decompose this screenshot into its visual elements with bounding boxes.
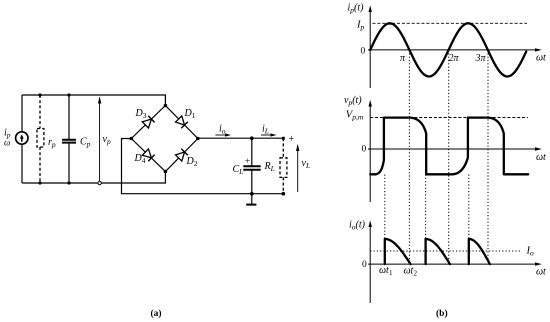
svg-text:0: 0 — [361, 47, 366, 57]
svg-text:0: 0 — [362, 260, 367, 270]
svg-text:(a): (a) — [151, 308, 162, 319]
svg-text:ip(t): ip(t) — [348, 3, 365, 15]
svg-text:ωt: ωt — [536, 152, 546, 163]
svg-text:0: 0 — [362, 145, 367, 155]
svg-text:2π: 2π — [449, 53, 460, 64]
svg-text:ωt: ωt — [536, 267, 546, 278]
svg-text:(b): (b) — [436, 308, 448, 319]
svg-text:vp(t): vp(t) — [344, 95, 362, 107]
svg-text:3π: 3π — [475, 53, 487, 64]
svg-text:ω: ω — [4, 138, 10, 148]
svg-text:io(t): io(t) — [349, 220, 366, 232]
svg-text:+: + — [245, 156, 250, 166]
svg-text:+: + — [289, 134, 295, 145]
svg-text:ωt: ωt — [536, 53, 546, 64]
